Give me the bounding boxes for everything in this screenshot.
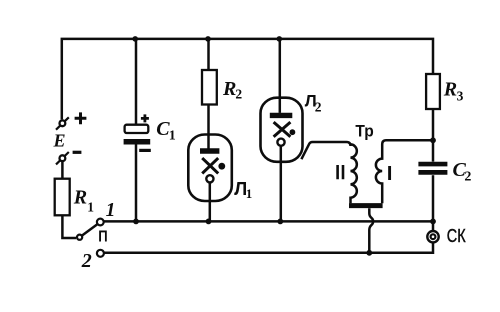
svg-text:Тр: Тр [355,122,373,141]
svg-text:2: 2 [81,250,92,272]
svg-text:СК: СК [447,226,466,246]
svg-text:2: 2 [315,99,322,114]
svg-text:2: 2 [235,86,242,101]
svg-text:2: 2 [464,170,471,185]
svg-text:1: 1 [106,200,116,221]
svg-text:R: R [443,79,457,101]
svg-text:1: 1 [87,200,94,215]
svg-text:R: R [222,78,236,100]
svg-text:1: 1 [169,129,176,144]
svg-text:E: E [53,131,66,151]
svg-text:П: П [98,229,107,246]
svg-text:R: R [73,187,87,209]
svg-text:3: 3 [457,89,464,104]
svg-text:1: 1 [246,186,253,201]
